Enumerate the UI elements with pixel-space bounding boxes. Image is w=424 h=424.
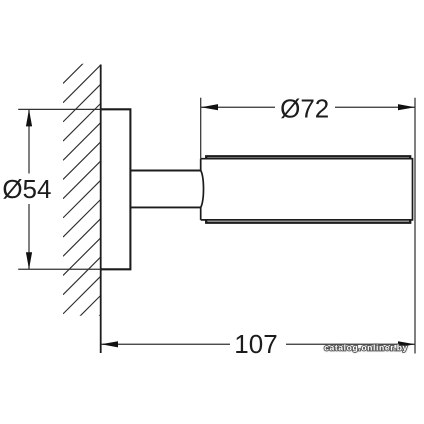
svg-text:107: 107 [234, 329, 277, 359]
arrow left (107) [101, 341, 118, 347]
svg-text:catalog.onliner.by: catalog.onliner.by [324, 343, 408, 353]
dimension Ø72: horizontal dimension line with arrows [201, 106, 415, 108]
holder body (Ø72 cup, side view) [201, 156, 413, 222]
holder bottom lip [206, 220, 410, 223]
extension line left of Ø72 (above holder) [200, 98, 202, 159]
arrow up (Ø54 top) [26, 109, 32, 126]
extension line right of Ø72 / 107 [414, 98, 416, 354]
svg-text:Ø72: Ø72 [280, 93, 329, 123]
dimension Ø54: vertical dimension line with arrows [28, 109, 30, 269]
extension line bottom of Ø54 [18, 268, 101, 270]
holder top lip [206, 156, 410, 158]
arrow down (Ø54 bottom) [26, 252, 32, 269]
mounting stem (arm between plate and holder) [130, 170, 201, 172]
watermark catalog.onliner.by [324, 343, 408, 353]
wall hatching [63, 46, 101, 353]
extension line top of Ø54 [18, 108, 101, 110]
wall plate (rosette Ø54, side view) [101, 109, 131, 269]
dimension 107: horizontal dimension line with arrows [101, 343, 415, 345]
svg-text:Ø54: Ø54 [2, 174, 51, 204]
wall face line [100, 65, 102, 354]
arrow left (Ø72) [201, 104, 218, 110]
arrow right (Ø72) [398, 104, 415, 110]
arrow right (107) [398, 341, 415, 347]
